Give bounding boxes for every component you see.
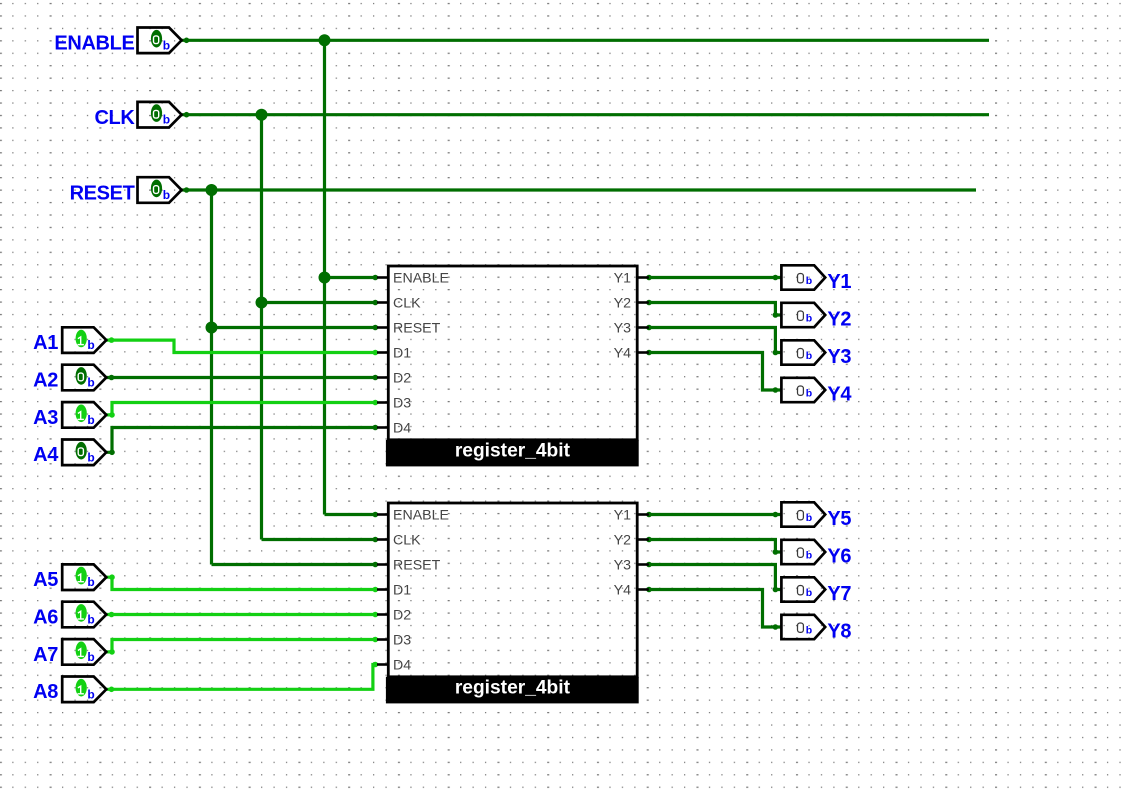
input pin A2 (33, 365, 106, 392)
svg-text:register_4bit: register_4bit (455, 677, 571, 698)
junction ENABLE U1 branch (319, 272, 331, 284)
node Y5 stub end (646, 512, 652, 518)
svg-text:Y6: Y6 (827, 546, 851, 568)
svg-text:D3: D3 (393, 632, 411, 648)
wire CLK vertical drop (260, 115, 263, 540)
junction CLK top (256, 109, 268, 121)
input pin A4 (33, 440, 106, 467)
svg-text:b: b (806, 313, 812, 325)
node Y6 pin end (773, 549, 779, 555)
svg-text:b: b (87, 450, 94, 464)
wire U1 Y4 to pin Y4 (649, 353, 782, 391)
svg-text:b: b (163, 188, 170, 202)
wire U2 Y1 to pin Y5 (649, 513, 782, 516)
wire U2 Y3 to pin Y7 (649, 565, 782, 590)
svg-text:Y3: Y3 (827, 346, 851, 368)
wire RESET branch to U2 (212, 563, 378, 566)
svg-text:ENABLE: ENABLE (393, 270, 449, 286)
node Y6 stub end (646, 537, 652, 543)
svg-text:ENABLE: ENABLE (393, 507, 449, 523)
input pin A6 (33, 602, 106, 629)
svg-text:b: b (87, 338, 94, 352)
svg-text:RESET: RESET (393, 557, 441, 573)
svg-text:b: b (163, 113, 170, 127)
svg-text:Y1: Y1 (827, 271, 851, 293)
svg-text:Y8: Y8 (827, 621, 851, 643)
wire U1 Y1 to pin Y1 (649, 276, 782, 279)
svg-text:CLK: CLK (393, 295, 421, 311)
node Y5 pin end (773, 512, 779, 518)
node Y3 pin end (773, 350, 779, 356)
output pin Y3 (781, 340, 851, 368)
svg-text:b: b (806, 388, 812, 400)
node Y2 stub end (646, 300, 652, 306)
wire RESET main horizontal (182, 188, 976, 191)
svg-text:RESET: RESET (393, 320, 441, 336)
wire U1 Y2 to pin Y2 (649, 303, 782, 316)
node Y1 pin end (773, 275, 779, 281)
node A8 D4 end (373, 662, 379, 668)
wire A2 to U1 D2 (106, 376, 377, 379)
wire A8 to U2 D4 (106, 665, 377, 690)
output pin Y5 (781, 502, 851, 530)
svg-text:CLK: CLK (393, 532, 421, 548)
wire CLK branch to U1 (262, 301, 378, 304)
wire ENABLE main horizontal (182, 39, 989, 42)
svg-text:A3: A3 (33, 407, 58, 429)
input pin ENABLE (54, 28, 181, 55)
node A3 D3 end (373, 400, 379, 406)
node RESET U2 end (373, 562, 379, 568)
node A5 D1 end (373, 587, 379, 593)
wire U2 Y2 to pin Y6 (649, 540, 782, 553)
node CLK U2 end (373, 537, 379, 543)
svg-text:A8: A8 (33, 681, 58, 703)
wire A5 to U2 D1 (106, 577, 377, 589)
node A7 D3 end (373, 637, 379, 643)
wire RESET branch to U1 (212, 326, 378, 329)
svg-text:A5: A5 (33, 569, 58, 591)
node ENABLE U1 end (373, 275, 379, 281)
node A1 pin end (109, 337, 115, 343)
node A1 D1 end (373, 350, 379, 356)
wire ENABLE branch to U1 (325, 276, 378, 279)
node Y4 stub end (646, 350, 652, 356)
node Y1 stub end (646, 275, 652, 281)
svg-text:b: b (163, 38, 170, 52)
svg-text:ENABLE: ENABLE (54, 33, 134, 55)
wire A7 to U2 D3 (106, 640, 377, 652)
svg-text:Y2: Y2 (614, 295, 631, 311)
node A3 pin end (109, 412, 115, 418)
svg-text:RESET: RESET (70, 182, 135, 204)
node Y2 pin end (773, 312, 779, 318)
svg-text:D4: D4 (393, 420, 411, 436)
svg-text:D3: D3 (393, 395, 411, 411)
svg-text:Y3: Y3 (614, 557, 631, 573)
node ENABLE pin end (184, 38, 190, 44)
input pin A3 (33, 402, 106, 429)
node Y7 stub end (646, 562, 652, 568)
node CLK pin end (184, 112, 190, 118)
output pin Y8 (781, 615, 851, 643)
junction CLK U1 branch (256, 297, 268, 309)
node RESET pin end (184, 187, 190, 193)
node A6 D2 end (373, 612, 379, 618)
node A4 pin end (109, 450, 115, 456)
svg-text:A7: A7 (33, 644, 58, 666)
node Y8 stub end (646, 587, 652, 593)
node RESET U1 end (373, 325, 379, 331)
node A8 pin end (109, 687, 115, 693)
node A6 pin end (109, 612, 115, 618)
svg-text:A6: A6 (33, 606, 58, 628)
svg-text:D1: D1 (393, 582, 411, 598)
svg-text:Y1: Y1 (614, 507, 631, 523)
wire A6 to U2 D2 (106, 613, 377, 616)
svg-text:A2: A2 (33, 369, 58, 391)
svg-text:register_4bit: register_4bit (455, 440, 571, 461)
output pin Y4 (781, 378, 852, 406)
wire CLK branch to U2 (262, 538, 378, 541)
wire A3 to U1 D3 (106, 403, 377, 415)
svg-text:b: b (87, 575, 94, 589)
node ENABLE U2 end (373, 512, 379, 518)
IC U2 register_4bit (377, 503, 649, 703)
wire U2 Y4 to pin Y8 (649, 590, 782, 628)
junction ENABLE top (319, 34, 331, 46)
svg-text:b: b (87, 650, 94, 664)
input pin A5 (33, 564, 106, 591)
node A5 pin end (109, 574, 115, 580)
node Y7 pin end (773, 587, 779, 593)
svg-text:Y1: Y1 (614, 270, 631, 286)
svg-text:Y7: Y7 (827, 583, 851, 605)
wire A1 to U1 D1 (106, 340, 377, 352)
svg-text:D2: D2 (393, 607, 411, 623)
wire A4 to U1 D4 (106, 428, 377, 453)
svg-text:CLK: CLK (94, 107, 135, 129)
node CLK U1 end (373, 300, 379, 306)
svg-text:b: b (87, 376, 94, 390)
svg-text:Y5: Y5 (827, 508, 851, 530)
wire CLK main horizontal (182, 113, 989, 116)
input pin RESET (70, 177, 182, 204)
svg-text:D1: D1 (393, 345, 411, 361)
node A7 pin end (109, 649, 115, 655)
svg-text:b: b (806, 550, 812, 562)
output pin Y2 (781, 303, 851, 331)
node A4 D4 end (373, 425, 379, 431)
svg-text:A1: A1 (33, 332, 58, 354)
wire RESET vertical drop (210, 190, 213, 565)
input pin CLK (94, 102, 181, 129)
svg-text:b: b (87, 613, 94, 627)
output pin Y6 (781, 540, 851, 568)
svg-text:Y2: Y2 (614, 532, 631, 548)
node Y8 pin end (773, 624, 779, 630)
svg-text:b: b (806, 275, 812, 287)
output pin Y7 (781, 577, 851, 605)
svg-text:b: b (806, 625, 812, 637)
input pin A7 (33, 639, 106, 666)
node Y3 stub end (646, 325, 652, 331)
input pin A1 (33, 327, 106, 354)
svg-text:b: b (806, 587, 812, 599)
svg-text:A4: A4 (33, 444, 59, 466)
wire ENABLE branch to U2 (325, 513, 378, 516)
svg-text:D4: D4 (393, 657, 411, 673)
junction RESET top (206, 184, 218, 196)
output pin Y1 (781, 265, 851, 293)
junction RESET U1 branch (206, 322, 218, 334)
svg-text:b: b (806, 512, 812, 524)
svg-text:Y4: Y4 (614, 345, 631, 361)
wire U1 Y3 to pin Y3 (649, 328, 782, 353)
node Y4 pin end (773, 387, 779, 393)
input pin A8 (33, 677, 106, 704)
IC U1 register_4bit (377, 266, 649, 466)
svg-text:Y2: Y2 (827, 309, 851, 331)
svg-text:Y4: Y4 (614, 582, 631, 598)
svg-text:D2: D2 (393, 370, 411, 386)
wire ENABLE vertical drop (323, 40, 326, 514)
svg-text:b: b (806, 350, 812, 362)
svg-text:b: b (87, 413, 94, 427)
svg-text:b: b (87, 687, 94, 701)
svg-text:Y4: Y4 (827, 384, 852, 406)
node A2 D2 end (373, 375, 379, 381)
node A2 pin end (109, 375, 115, 381)
svg-text:Y3: Y3 (614, 320, 631, 336)
